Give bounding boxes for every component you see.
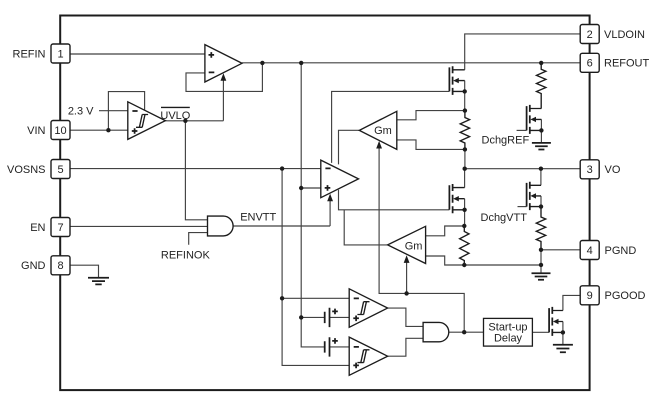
wire 2.3 V to UVLO comparator - input (99, 110, 128, 112)
gm amplifier Gm2 (388, 226, 426, 263)
wire UVLO to ENVTT and-gate (185, 121, 207, 220)
svg-text:ENVTT: ENVTT (240, 211, 276, 223)
wire DchgREF source to ground (540, 119, 542, 142)
transistor DchgVTT FET (527, 182, 541, 210)
svg-text:4: 4 (587, 245, 593, 257)
wire REF net vertical (301, 63, 325, 347)
start-up delay block (484, 318, 533, 346)
pin 3 VO (580, 160, 599, 179)
and-gate ENVTT (208, 216, 234, 236)
wire Q2 drain (464, 169, 466, 188)
resistor R1 REFOUT pull-up (537, 63, 546, 109)
offset source comparator A (325, 308, 330, 327)
wire VIN supply loop over comparator (108, 92, 144, 131)
svg-text:2.3 V: 2.3 V (68, 105, 94, 117)
pin 10 VIN (51, 121, 70, 140)
arrow ENVTT into error amp (327, 194, 333, 202)
svg-text:REFIN: REFIN (13, 48, 46, 60)
wire buffer output / REFOUT net (242, 62, 580, 64)
transistor PGOOD open-drain FET (549, 307, 563, 336)
comparator PGOOD low (349, 337, 387, 375)
pin 5 VOSNS (51, 160, 70, 179)
svg-text:REFOUT: REFOUT (604, 58, 650, 70)
wire R3 bottom rail to PGND column (464, 264, 541, 266)
IC boundary box (60, 16, 589, 391)
svg-text:1: 1 (57, 48, 63, 60)
svg-text:REFINOK: REFINOK (161, 250, 211, 262)
ground at DchgREF (532, 143, 551, 150)
wire Gm enable net (379, 148, 464, 333)
and-gate PGOOD (423, 322, 449, 341)
transistor DchgREF FET (527, 105, 542, 134)
wire ENVTT net (233, 200, 330, 226)
pin 6 REFOUT (580, 53, 599, 72)
wire GND pin to ground (70, 265, 99, 278)
arrow UVLO into buffer (221, 73, 227, 81)
wire start-up delay to PGOOD FET gate (532, 331, 549, 333)
wire Gm1 lower input tap (397, 140, 465, 150)
wire Q1 drain to VLDOIN (465, 34, 581, 70)
wire comparator B output to and-gate (388, 338, 424, 356)
gm amplifier Gm1 (359, 111, 397, 149)
svg-text:GND: GND (21, 260, 46, 272)
wire VO rail to DchgVTT drain (540, 169, 542, 186)
resistor R2 source divider (460, 111, 469, 150)
wire UVLO output (165, 80, 223, 121)
wire VO rail (465, 168, 581, 170)
ground at GND pin (88, 278, 109, 285)
svg-text:UVLO: UVLO (160, 110, 190, 122)
op-amp VTT error amplifier (321, 160, 359, 198)
transistor Q2 VTT sink FET (449, 184, 464, 213)
svg-text:8: 8 (57, 260, 63, 272)
wire REF to error amp + input (301, 187, 321, 189)
wire and-gate to start-up delay (449, 331, 484, 333)
svg-text:VO: VO (605, 164, 621, 176)
svg-text:10: 10 (54, 125, 66, 137)
svg-text:PGOOD: PGOOD (605, 290, 646, 302)
resistor R3 sink divider (460, 226, 469, 265)
wire Q1 source to R2 (464, 81, 466, 111)
wire Q2 source to R3 (464, 199, 466, 226)
transistor Q1 VTT source FET (449, 66, 464, 95)
svg-text:6: 6 (587, 58, 593, 70)
svg-text:VLDOIN: VLDOIN (604, 29, 645, 41)
svg-text:3: 3 (587, 164, 593, 176)
wire R2 bottom to VO rail (464, 149, 466, 168)
offset source comparator B (325, 337, 330, 356)
wire PGOOD FET source to ground (562, 322, 564, 345)
pin 2 VLDOIN (580, 25, 599, 44)
svg-text:PGND: PGND (605, 245, 637, 257)
pin 9 PGOOD (580, 286, 599, 305)
ground at PGOOD FET (553, 345, 573, 352)
wire error amp to sink FET gate (339, 190, 450, 210)
svg-text:VOSNS: VOSNS (7, 164, 46, 176)
wire Gm2 output (344, 210, 387, 245)
wire DchgREF gate stub (517, 129, 527, 131)
svg-text:5: 5 (57, 164, 63, 176)
resistor R4 DchgVTT path (536, 207, 545, 250)
wire REFIN to buffer + input (70, 53, 205, 55)
pin 8 GND (51, 256, 70, 275)
svg-text:2: 2 (587, 29, 593, 41)
wire error amp to source FET gate (332, 91, 450, 162)
wire VOSNS to error amp - input (70, 168, 321, 170)
wire VOSNS sense down to PGOOD comparators (282, 169, 349, 366)
op-amp REF buffer (205, 45, 242, 82)
svg-text:VIN: VIN (27, 125, 45, 137)
wire REF to comparator offset sources (301, 317, 349, 347)
hysteresis symbol UVLO comparator (136, 115, 148, 128)
hysteresis symbol comparator A (357, 302, 369, 315)
wire VIN to UVLO comparator + input (70, 129, 128, 131)
wire PGND pin line (541, 250, 580, 273)
wire REFINOK stub (189, 233, 208, 245)
svg-text:Gm: Gm (374, 125, 392, 137)
wire Gm1 upper input tap (397, 111, 465, 120)
hysteresis symbol comparator B (357, 350, 369, 363)
ground at PGND column (532, 273, 551, 280)
wire PGOOD FET drain to PGOOD pin (563, 295, 580, 310)
wire buffer feedback loop (186, 63, 262, 92)
arrow enable into Gm2 (404, 255, 410, 263)
wire Gm2 upper input tap (426, 226, 465, 236)
svg-text:Gm: Gm (405, 241, 423, 253)
comparator PGOOD high (349, 289, 387, 328)
pin 7 EN (51, 218, 70, 237)
pin 4 PGND (580, 241, 599, 260)
svg-text:EN: EN (30, 222, 45, 234)
pin 1 REFIN (51, 44, 70, 63)
wire Gm2 lower input tap (426, 256, 465, 265)
svg-text:DchgVTT: DchgVTT (481, 212, 528, 224)
arrow enable into Gm1 (376, 141, 382, 149)
svg-text:9: 9 (587, 290, 593, 302)
wire Gm1 output (339, 130, 360, 164)
wire comparator A output to and-gate (388, 308, 424, 326)
wire EN to and-gate (70, 225, 208, 227)
comparator UVLO (128, 102, 166, 140)
svg-text:DchgREF: DchgREF (482, 134, 530, 146)
wire DchgVTT source (540, 196, 542, 207)
svg-text:7: 7 (57, 222, 63, 234)
svg-text:Delay: Delay (494, 332, 523, 344)
wire DchgVTT gate stub (518, 206, 527, 208)
